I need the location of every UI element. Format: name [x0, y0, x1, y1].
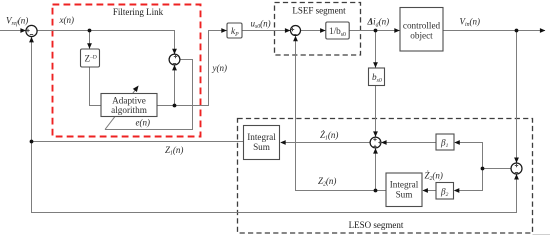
- wire: Z^-D output to Adaptive algorithm: [90, 67, 102, 106]
- dashed box: LESO segment: [238, 119, 533, 234]
- wire: tap down to bs0: [375, 31, 377, 68]
- svg-text:algorithm: algorithm: [111, 105, 147, 115]
- node: y(n) tap: [173, 104, 177, 108]
- arrow into Integral Sum 2: [422, 188, 428, 193]
- node: Z2 tap: [374, 189, 378, 193]
- wire: adaptive output y(n) to kp: [157, 31, 227, 106]
- svg-text:controlled: controlled: [403, 20, 441, 30]
- svg-text:x(n): x(n): [59, 15, 75, 25]
- wire: x(n) main line into sum S2: [37, 31, 174, 55]
- wire: y(n) branch up into S2: [174, 65, 176, 105]
- arrow into controlled object: [394, 28, 400, 33]
- arrow into 1/bs0: [320, 28, 326, 33]
- node: N6 error tap: [481, 167, 485, 171]
- wire: Z2 line from Integral Sum 2 up to LSEF sum: [296, 36, 387, 190]
- arrow at output end: [540, 28, 546, 33]
- arrow into S3 bottom: [293, 36, 298, 42]
- wire: Z2 branch up into S4: [375, 148, 377, 190]
- wire: tap down to Z^-D: [89, 31, 91, 49]
- arrow into kp: [221, 28, 227, 33]
- wire: bs0 to middle sum S4: [375, 86, 377, 137]
- box: Adaptive algorithm: [101, 94, 157, 117]
- wire: S4 output Zdot1 to Integral Sum: [281, 142, 370, 144]
- arrow into S4 right: [381, 140, 387, 145]
- box: Z^-D delay: [81, 49, 100, 67]
- wire: S5 output to node N6: [483, 168, 512, 170]
- arrow into S2 top: [172, 49, 177, 55]
- wire: N6 down to beta2 input: [455, 169, 483, 191]
- wire: LSEF sum to 1/bs0: [301, 30, 326, 32]
- wire: Z1 bottom feedback to S5: [32, 142, 517, 213]
- box: Integral Sum 2: [386, 173, 422, 207]
- wire: 1/bs0 to controlled object: [349, 30, 399, 32]
- svg-text:e(n): e(n): [136, 118, 151, 128]
- box: Integral Sum 1: [244, 126, 280, 160]
- svg-text:object: object: [410, 30, 433, 40]
- node: Vin tap: [515, 29, 519, 33]
- arrow into S4 top: [373, 131, 378, 137]
- wire: beta2 output to Integral Sum 2: [423, 190, 436, 192]
- arrow into S3 left: [285, 28, 291, 33]
- arrow into Integral Sum 1: [280, 140, 286, 145]
- box: beta1: [436, 134, 454, 150]
- wire: Vref input: [0, 30, 26, 32]
- node: delta id tap: [374, 29, 378, 33]
- svg-text:Integral: Integral: [390, 180, 419, 190]
- svg-text:Integral: Integral: [247, 132, 276, 142]
- arrow into S2 bottom: [172, 65, 177, 71]
- svg-text:Filtering Link: Filtering Link: [113, 7, 164, 17]
- arrow into beta1: [454, 140, 460, 145]
- box: kp: [227, 23, 242, 38]
- arrow into beta2: [454, 188, 460, 193]
- arrow into S5 bottom: [514, 174, 519, 180]
- box: 1/bs0: [326, 22, 349, 39]
- arrow on adaptation diagonal: [133, 86, 139, 93]
- arrow into bs0: [373, 62, 378, 67]
- arrow into S1 bottom: [29, 37, 34, 43]
- summing junction S4 (LESO sum): [370, 137, 382, 148]
- summing junction S2 (x - y): [169, 54, 180, 65]
- dashed box: LSEF segment: [275, 3, 361, 56]
- svg-text:Sum: Sum: [253, 142, 270, 152]
- svg-text:LESO segment: LESO segment: [349, 220, 404, 230]
- wire: Z1 up into S1: [31, 37, 33, 141]
- arrow into S5 top: [514, 158, 519, 164]
- svg-text:y(n): y(n): [212, 63, 228, 73]
- box: controlled object: [400, 8, 443, 52]
- wire: N6 up to beta1 input: [455, 143, 483, 169]
- node: Z1 tap: [30, 140, 34, 144]
- arrow into S4 bottom: [373, 148, 378, 154]
- svg-text:Adaptive: Adaptive: [112, 95, 146, 105]
- box: beta2: [436, 183, 454, 200]
- dashed box: Filtering Link: [53, 5, 201, 137]
- node: x(n) tap: [88, 29, 92, 33]
- summing junction S1 (Vref - Z1): [26, 25, 37, 36]
- wire: Vin down to S5: [516, 31, 518, 163]
- summing junction S5 (Vin - Z1): [511, 163, 522, 174]
- box: bs0: [369, 68, 385, 86]
- wire: e(n) path from S2 around to bottom: [105, 60, 193, 130]
- svg-text:Sum: Sum: [396, 190, 413, 200]
- svg-text:LSEF segment: LSEF segment: [292, 6, 346, 16]
- wire: kp to LSEF sum: [242, 30, 290, 32]
- wire: faint page edge bottom right: [533, 234, 550, 236]
- wire: Z1 line from Integral Sum to left: [32, 141, 244, 143]
- wire: e(n) diagonal adaptation line: [105, 89, 136, 129]
- arrow into Z^-D: [87, 43, 92, 49]
- arrow into S1: [20, 28, 26, 33]
- wire: controlled object output: [443, 30, 545, 32]
- summing junction S3 (us0 - Z2): [291, 26, 301, 36]
- wire: beta1 output to S4: [382, 142, 437, 144]
